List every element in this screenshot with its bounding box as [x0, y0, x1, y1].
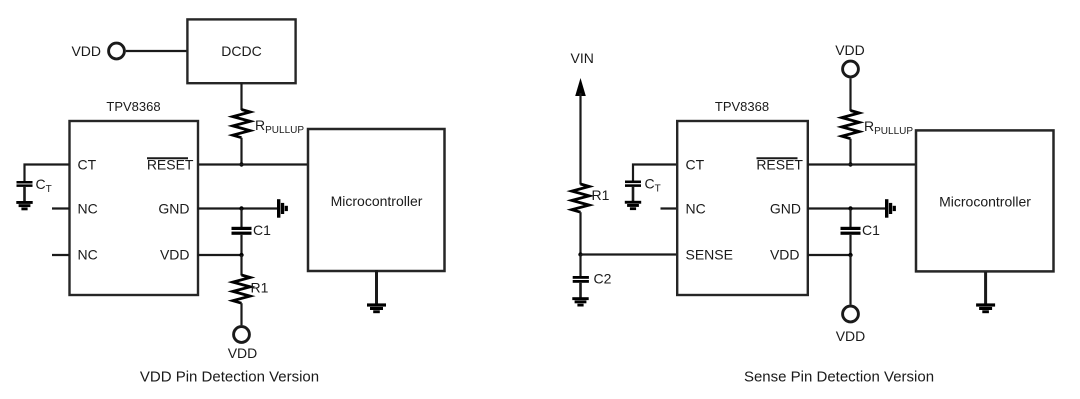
svg-text:C1: C1 — [862, 222, 880, 238]
wire: C1 to VDD net (right) — [849, 235, 851, 255]
wire: GND junction down to C1 (right) — [849, 209, 851, 228]
wire: C1 to VDD net — [240, 235, 242, 255]
wire: R_PULLUP to RESET net — [240, 138, 242, 165]
svg-text:TPV8368: TPV8368 — [715, 99, 769, 114]
wire: SENSE net to chip — [581, 253, 678, 255]
ground (below microcontroller right) — [976, 303, 995, 313]
node: RESET net junction — [239, 162, 243, 166]
svg-text:R1: R1 — [251, 280, 269, 296]
wire: VDD junction down to R1 — [240, 255, 242, 276]
wire: VIN down to R1 — [579, 93, 581, 185]
wire: DCDC output down to R_PULLUP — [240, 83, 242, 110]
node: GND net junction (right) — [848, 206, 852, 210]
capacitor C1 — [232, 227, 252, 230]
svg-text:Sense Pin Detection Version: Sense Pin Detection Version — [744, 369, 934, 386]
svg-text:RPULLUP: RPULLUP — [255, 117, 304, 136]
resistor R1 — [233, 275, 250, 303]
block Microcontroller (left) — [308, 129, 445, 271]
IC U1 TPV8368 box — [70, 121, 199, 295]
svg-text:NC: NC — [686, 201, 706, 217]
wire: R1 to SENSE node — [579, 212, 581, 254]
svg-text:VDD: VDD — [835, 42, 865, 58]
capacitor C_T (right) — [625, 181, 641, 184]
wire: NC stub (right) — [661, 207, 678, 209]
svg-text:GND: GND — [158, 201, 189, 217]
svg-text:C2: C2 — [594, 271, 612, 287]
ground (below C2) — [572, 297, 588, 306]
svg-text:Microcontroller: Microcontroller — [939, 194, 1031, 210]
ground (below C_T) — [16, 201, 32, 210]
node: GND net junction — [239, 206, 243, 210]
wire: VDD terminal to R_PULLUP (right) — [849, 78, 851, 111]
wire: C_T to ground — [23, 187, 26, 202]
ground (below microcontroller) — [367, 303, 386, 313]
wire: VDD terminal to DCDC input — [126, 50, 188, 52]
wire: microcontroller to ground — [375, 270, 378, 304]
wire: R_PULLUP to RESET net (right) — [849, 139, 851, 165]
wire: VDD pin to junction — [198, 254, 242, 256]
ground (right-pointing, GND net) — [277, 199, 288, 218]
wire: R1 to VDD terminal — [240, 303, 242, 325]
svg-text:VDD: VDD — [228, 345, 258, 361]
IC U2 TPV8368 box (right) — [677, 121, 808, 295]
svg-text:DCDC: DCDC — [221, 43, 261, 59]
node: RESET net junction (right) — [848, 162, 852, 166]
capacitor C_T — [17, 181, 33, 184]
svg-text:CT: CT — [78, 157, 97, 173]
svg-text:CT: CT — [686, 157, 705, 173]
block Microcontroller (right) — [916, 130, 1054, 271]
capacitor C2 — [573, 276, 589, 279]
wire: GND pin to ground symbol (right) — [808, 207, 886, 209]
wire: RESET net chip to microcontroller (right) — [808, 163, 916, 165]
node VIN arrow — [575, 78, 586, 96]
node: VDD net junction — [239, 253, 243, 257]
wire: VDD junction down to bottom terminal — [849, 255, 851, 305]
wire: CT pin to C_T — [25, 165, 70, 182]
wire: C2 to ground — [579, 283, 582, 298]
power terminal VDD circle — [109, 43, 125, 59]
resistor R_PULLUP (right) — [842, 111, 859, 139]
svg-text:Microcontroller: Microcontroller — [331, 193, 423, 209]
svg-text:VDD: VDD — [836, 328, 866, 344]
svg-text:CT: CT — [36, 176, 52, 195]
wire: CT pin to C_T (right) — [633, 165, 677, 182]
wire: NC stub (row3) — [52, 254, 70, 256]
block DCDC — [187, 19, 295, 83]
ground (right-pointing, GND net right) — [885, 199, 896, 218]
wire: GND junction down to C1 — [240, 209, 242, 228]
node: VDD net junction (right) — [848, 253, 852, 257]
wire: microcontroller to ground (right) — [984, 272, 987, 304]
svg-text:CT: CT — [645, 176, 661, 195]
svg-text:NC: NC — [78, 201, 98, 217]
power terminal VDD (bottom) circle — [234, 327, 250, 343]
wire: C_T to ground (right) — [632, 187, 635, 201]
svg-text:VDD: VDD — [71, 43, 101, 59]
capacitor C1 (right) — [841, 227, 861, 230]
ground (below C_T right) — [625, 201, 641, 210]
svg-text:GND: GND — [770, 201, 801, 217]
power terminal VDD (top right) circle — [843, 61, 859, 77]
wire: NC stub (row2) — [52, 207, 70, 209]
svg-text:RPULLUP: RPULLUP — [864, 118, 913, 137]
wire: VDD pin to junction (right) — [808, 254, 851, 256]
svg-text:C1: C1 — [253, 222, 271, 238]
svg-text:VIN: VIN — [571, 50, 594, 66]
resistor R1 (right) — [572, 184, 589, 212]
wire: RESET net (chip to microcontroller) — [198, 163, 308, 165]
svg-text:VDD: VDD — [770, 247, 800, 263]
resistor R_PULLUP — [233, 110, 250, 138]
wire: junction down to C2 — [579, 255, 581, 277]
node: SENSE junction — [578, 252, 582, 256]
power terminal VDD (bottom right) circle — [843, 306, 859, 322]
svg-text:R1: R1 — [592, 187, 610, 203]
svg-text:VDD Pin Detection Version: VDD Pin Detection Version — [140, 369, 319, 386]
wire: GND pin to ground symbol — [198, 207, 278, 209]
svg-text:VDD: VDD — [160, 247, 190, 263]
svg-text:SENSE: SENSE — [686, 247, 733, 263]
svg-text:NC: NC — [78, 247, 98, 263]
svg-text:TPV8368: TPV8368 — [106, 99, 160, 114]
